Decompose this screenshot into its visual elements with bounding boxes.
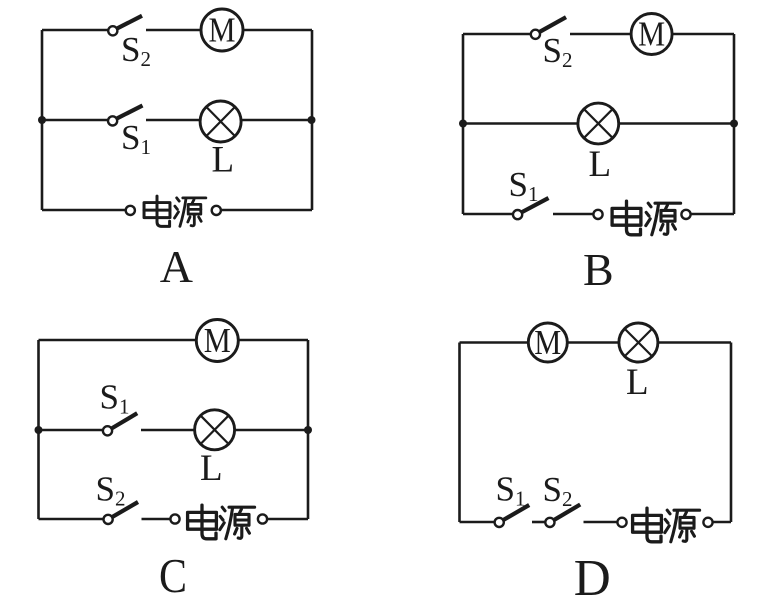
switch S2 (C) pivot circle: [104, 515, 113, 524]
motor M (B) circle: [631, 14, 672, 55]
switch S2 (B) pivot circle: [531, 30, 540, 39]
lamp L (C) circle with cross: [195, 410, 235, 450]
wire D bottom-left to switch S1: [460, 521, 495, 524]
wire B top-left to switch S2: [463, 33, 531, 36]
svg-text:S1: S1: [496, 470, 526, 511]
svg-text:L: L: [200, 448, 223, 489]
battery terminal right (C): [258, 514, 267, 523]
switch S1 (B) lever: [522, 198, 549, 212]
label 电源 (D): [633, 508, 700, 542]
lamp L (D) circle with cross: [619, 323, 658, 362]
wire B left vertical: [462, 34, 465, 214]
wire C motor to top-right corner: [238, 339, 308, 342]
node B left junction dot: [459, 120, 467, 128]
label 电源 (A): [144, 196, 206, 226]
svg-text:S1: S1: [509, 165, 539, 206]
wire B motor to top-right corner: [672, 33, 734, 36]
svg-text:M: M: [638, 15, 665, 54]
svg-text:L: L: [626, 362, 649, 403]
wire B lamp to right junction: [619, 122, 734, 125]
wire A switch S1 to lamp: [146, 119, 200, 122]
wire C right vertical: [307, 340, 310, 519]
svg-text:A: A: [160, 241, 193, 292]
wire D right vertical: [730, 343, 733, 523]
wire A bottom-left to battery terminal: [42, 209, 126, 212]
svg-text:S2: S2: [121, 30, 151, 71]
wire A left vertical: [41, 30, 44, 210]
battery terminal right (D): [703, 518, 712, 527]
wire C left vertical: [37, 340, 40, 519]
motor M (C) circle: [196, 320, 238, 362]
wire D switch S2 to battery terminal: [584, 521, 618, 524]
lamp L (B) circle with cross: [578, 103, 619, 144]
label 电源 (C): [188, 505, 255, 539]
wire D motor to lamp: [567, 341, 619, 344]
label 电源 (B): [612, 201, 681, 235]
svg-text:S2: S2: [96, 470, 126, 511]
svg-text:B: B: [583, 244, 614, 295]
wire C battery to bottom-right: [267, 518, 308, 521]
svg-text:C: C: [159, 548, 187, 603]
wire C bottom-left to switch S2: [39, 518, 104, 521]
wire D switch S1 to switch S2: [532, 521, 545, 524]
battery terminal left (D): [617, 518, 626, 527]
battery terminal right (B): [681, 210, 690, 219]
wire B switch S1 to battery terminal: [553, 213, 593, 216]
lamp L (A) circle with cross: [200, 101, 241, 142]
svg-text:L: L: [212, 140, 235, 181]
svg-text:M: M: [534, 323, 561, 362]
wire A switch S2 to motor: [146, 29, 201, 32]
svg-text:S2: S2: [543, 31, 573, 72]
svg-text:S1: S1: [121, 118, 151, 159]
wire D top-left to motor: [460, 341, 529, 344]
wire B right vertical: [733, 34, 736, 214]
node A right junction dot: [308, 116, 316, 124]
battery terminal left (A): [126, 206, 135, 215]
svg-text:S2: S2: [543, 470, 573, 511]
wire C switch S1 to lamp: [141, 429, 195, 432]
wire C switch S2 to battery terminal: [142, 518, 171, 521]
battery terminal left (B): [593, 210, 602, 219]
wire C lamp to right junction: [235, 429, 308, 432]
wire D battery to bottom-right: [713, 521, 731, 524]
wire A lamp to right junction: [241, 119, 312, 122]
switch S1 (C) lever: [112, 413, 138, 428]
switch S2 (B) lever: [539, 17, 566, 32]
battery terminal right (A): [212, 206, 221, 215]
wire A top-left to switch S2: [42, 29, 108, 32]
node A left junction dot: [38, 116, 46, 124]
svg-text:L: L: [589, 144, 612, 185]
wire D left vertical: [458, 343, 461, 523]
wire D lamp to top-right corner: [658, 341, 731, 344]
switch S1 (C) pivot circle: [103, 426, 112, 435]
wire A middle-left to switch S1: [42, 119, 108, 122]
battery terminal left (C): [170, 514, 179, 523]
wire B middle-left to lamp: [463, 122, 578, 125]
wire A right vertical: [311, 30, 314, 210]
switch S1 (A) lever: [117, 106, 143, 119]
wire B battery to bottom-right: [691, 213, 734, 216]
switch S1 (D) pivot circle: [495, 518, 504, 527]
svg-text:S1: S1: [100, 378, 130, 419]
svg-text:D: D: [574, 550, 611, 604]
svg-text:M: M: [209, 11, 236, 50]
switch S2 (A) pivot circle: [108, 26, 117, 35]
switch S2 (C) lever: [112, 502, 138, 517]
motor M (A) circle: [201, 9, 243, 51]
wire C top-left to motor: [39, 339, 197, 342]
switch S1 (D) lever: [503, 505, 529, 520]
switch S2 (A) lever: [117, 16, 142, 29]
wire C middle-left to switch S1: [39, 429, 104, 432]
switch S2 (D) pivot circle: [545, 518, 554, 527]
node C left junction dot: [35, 426, 43, 434]
switch S1 (A) pivot circle: [108, 116, 117, 125]
node B right junction dot: [730, 120, 738, 128]
wire B switch S2 to motor: [570, 33, 631, 36]
node C right junction dot: [304, 426, 312, 434]
switch S1 (B) pivot circle: [513, 210, 522, 219]
svg-text:M: M: [204, 321, 231, 360]
motor M (D) circle: [528, 323, 567, 362]
wire B bottom-left to switch S1: [463, 213, 513, 216]
wire A motor to top-right corner: [243, 29, 312, 32]
switch S2 (D) lever: [554, 505, 580, 521]
wire A battery to bottom-right: [221, 209, 312, 212]
